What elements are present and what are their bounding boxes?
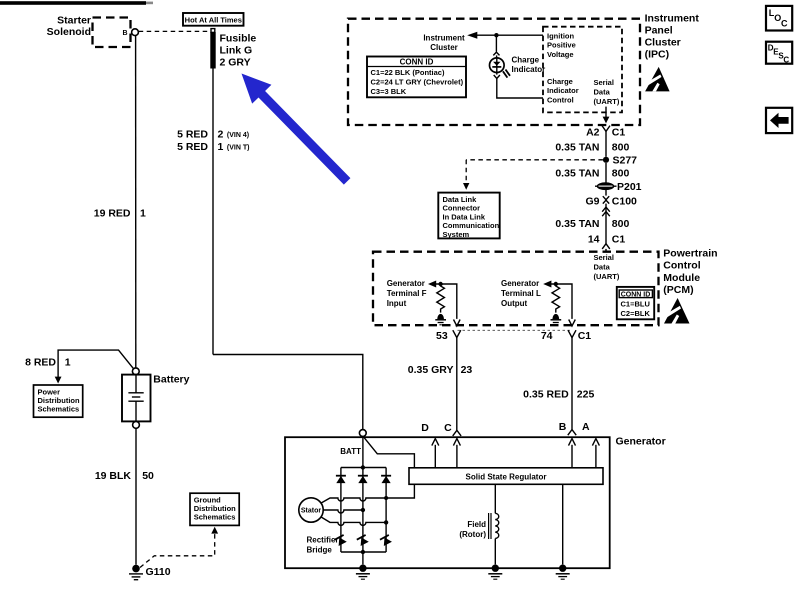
svg-text:Charge: Charge [547,77,573,86]
svg-text:Data: Data [594,262,611,271]
svg-text:Indicator: Indicator [512,65,546,74]
svg-text:Connector: Connector [443,204,481,213]
svg-text:0.35 RED: 0.35 RED [523,388,569,400]
svg-text:Generator: Generator [501,279,539,288]
svg-text:Instrument: Instrument [645,12,700,24]
svg-text:Generator: Generator [616,436,666,448]
svg-text:S277: S277 [613,155,638,167]
svg-text:A2: A2 [586,127,600,139]
svg-text:(UART): (UART) [594,97,620,106]
svg-text:Terminal F: Terminal F [387,289,427,298]
svg-text:Bridge: Bridge [307,546,333,555]
svg-text:C1: C1 [612,233,626,245]
svg-text:Serial: Serial [594,253,614,262]
svg-text:C: C [783,55,789,64]
svg-text:Instrument: Instrument [423,33,465,42]
svg-text:Serial: Serial [594,78,614,87]
svg-text:(Rotor): (Rotor) [459,530,486,539]
svg-text:1: 1 [218,141,224,153]
svg-text:BATT: BATT [340,447,361,456]
svg-text:Data: Data [594,88,611,97]
svg-text:5 RED: 5 RED [177,129,208,141]
svg-text:800: 800 [612,218,630,230]
svg-text:D: D [421,422,429,434]
svg-text:CONN ID: CONN ID [400,57,434,66]
svg-text:Generator: Generator [387,279,425,288]
svg-text:Ignition: Ignition [547,31,574,40]
svg-text:50: 50 [142,470,154,482]
svg-text:8 RED: 8 RED [25,357,56,369]
svg-text:Output: Output [501,299,528,308]
svg-text:Cluster: Cluster [645,36,681,48]
svg-text:Schematics: Schematics [194,513,236,522]
svg-text:Powertrain: Powertrain [663,248,717,260]
svg-text:C: C [444,422,452,434]
svg-text:0.35 TAN: 0.35 TAN [555,168,599,180]
svg-text:C1: C1 [578,330,592,342]
svg-text:C2=BLK: C2=BLK [621,309,651,318]
svg-text:Battery: Battery [153,373,189,385]
svg-text:Cluster: Cluster [430,43,458,52]
svg-text:(VIN T): (VIN T) [227,144,250,151]
svg-text:Schematics: Schematics [38,404,80,413]
svg-text:Solid State Regulator: Solid State Regulator [466,472,547,481]
svg-text:Field: Field [467,520,486,529]
svg-text:23: 23 [461,364,473,376]
svg-text:0.35 TAN: 0.35 TAN [555,141,599,153]
svg-text:C1=BLU: C1=BLU [621,299,650,308]
svg-text:B: B [122,30,127,37]
svg-text:Positive: Positive [547,41,576,50]
svg-text:1: 1 [140,208,146,220]
svg-text:Link G: Link G [220,45,253,57]
svg-text:53: 53 [436,330,448,342]
svg-text:G110: G110 [146,566,171,578]
svg-text:Stator: Stator [301,508,322,515]
svg-text:Fusible: Fusible [220,33,257,45]
svg-text:Indicator: Indicator [547,86,579,95]
svg-text:Module: Module [663,272,700,284]
svg-text:Solenoid: Solenoid [47,26,91,38]
svg-text:Data Link: Data Link [443,195,478,204]
svg-text:Terminal L: Terminal L [501,289,541,298]
svg-text:Charge: Charge [512,55,540,64]
svg-text:C3=3 BLK: C3=3 BLK [371,87,407,96]
svg-text:1: 1 [65,357,71,369]
svg-text:Input: Input [387,299,407,308]
svg-text:Rectifier: Rectifier [307,536,339,545]
svg-text:0.35 TAN: 0.35 TAN [555,218,599,230]
svg-text:System: System [443,230,470,239]
svg-text:In Data Link: In Data Link [443,212,486,221]
svg-text:C1=22 BLK (Pontiac): C1=22 BLK (Pontiac) [371,68,445,77]
svg-text:C2=24 LT GRY (Chevrolet): C2=24 LT GRY (Chevrolet) [371,78,464,87]
svg-text:Hot At All Times: Hot At All Times [185,15,242,24]
svg-text:P201: P201 [617,181,642,193]
svg-text:(VIN 4): (VIN 4) [227,132,249,139]
svg-text:19 RED: 19 RED [94,208,131,220]
svg-text:0.35 GRY: 0.35 GRY [408,364,454,376]
svg-text:14: 14 [588,233,600,245]
svg-text:A: A [582,421,590,433]
svg-text:19 BLK: 19 BLK [95,470,132,482]
svg-text:B: B [559,421,567,433]
svg-text:C100: C100 [612,196,637,208]
svg-text:800: 800 [612,168,630,180]
svg-text:G9: G9 [585,196,599,208]
svg-text:Starter: Starter [57,14,91,26]
svg-text:Control: Control [547,96,574,105]
svg-text:Communication: Communication [443,221,500,230]
svg-text:2: 2 [218,129,224,141]
svg-text:5 RED: 5 RED [177,141,208,153]
svg-text:(IPC): (IPC) [645,48,670,60]
svg-text:CONN ID: CONN ID [621,292,651,299]
svg-text:225: 225 [577,388,595,400]
svg-text:(PCM): (PCM) [663,284,693,296]
svg-text:Panel: Panel [645,24,673,36]
svg-text:Control: Control [663,260,700,272]
svg-text:Voltage: Voltage [547,50,574,59]
svg-text:C1: C1 [612,127,626,139]
svg-text:800: 800 [612,141,630,153]
svg-text:74: 74 [541,330,553,342]
svg-text:C: C [781,18,788,28]
svg-text:(UART): (UART) [594,272,620,281]
svg-text:2 GRY: 2 GRY [220,57,251,69]
